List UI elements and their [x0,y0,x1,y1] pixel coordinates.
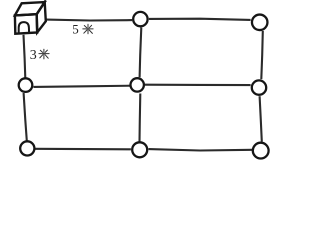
wire right vertical lower [260,96,262,141]
node circle top-right [252,15,268,31]
wire left vertical upper (house to mid-left circle), label 3米 [24,35,26,78]
node circle top-middle [133,12,147,26]
node circle bottom-left [20,141,34,155]
label 米 (meter) after 5 [83,24,93,33]
node circle middle-left [19,78,33,92]
svg-text:5: 5 [72,22,79,37]
house front face [15,14,37,34]
wire top-left horizontal (house to top-middle circle), label 5米 [47,19,133,22]
wire top-right horizontal [149,19,251,20]
house (3D box with arch door) at top-left [15,2,46,34]
label 米 (meter) after 3 [39,49,49,59]
house arch door [19,22,29,33]
wire bottom-right horizontal [149,149,253,150]
wire right vertical upper [261,31,263,79]
svg-text:3: 3 [30,48,37,63]
wire middle-right horizontal [145,84,251,87]
wire left vertical lower [24,93,27,141]
wire middle vertical upper [140,28,142,78]
node circle bottom-right [253,143,269,159]
node circle bottom-middle [132,142,147,157]
node circle middle-middle [131,78,144,91]
wire middle-left horizontal [33,86,130,87]
wire bottom-left horizontal [35,148,131,151]
house right face [37,2,46,32]
wire middle vertical lower [138,94,141,142]
node circle middle-right [252,80,266,94]
house top face [15,2,45,15]
